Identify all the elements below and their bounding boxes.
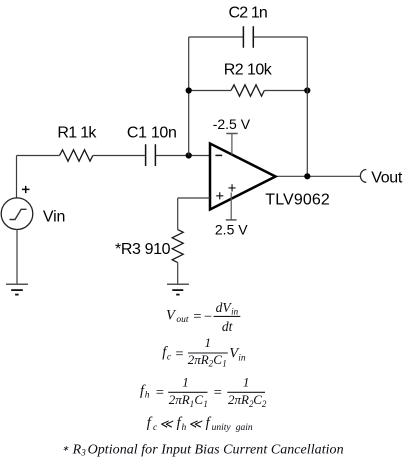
pin label minus (inverting input)	[215, 154, 222, 156]
formula fh = 1/(2piR1C1) = 1/(2piR2C2)	[140, 375, 267, 409]
capacitor C2	[243, 26, 253, 47]
svg-text:2.5 V: 2.5 V	[215, 221, 248, 237]
svg-text:1: 1	[182, 375, 189, 390]
positive supply rail 2.5 V	[226, 193, 237, 220]
wire R2 left	[189, 90, 231, 92]
svg-text:h: h	[182, 423, 187, 433]
wire Vin to ground	[16, 230, 18, 284]
wire R2 right	[264, 90, 307, 92]
ground (below Vin)	[6, 284, 28, 294]
svg-text:Vout: Vout	[371, 170, 403, 187]
svg-text:C: C	[194, 392, 203, 407]
resistor R3	[172, 230, 183, 263]
formula Vout = -dVin/dt	[166, 300, 240, 334]
wire input horizontal from Vin corner to R1	[17, 155, 60, 157]
svg-text:h: h	[145, 390, 150, 400]
svg-text:C2 1n: C2 1n	[229, 5, 268, 22]
polarity plus mark of Vin	[22, 186, 30, 193]
svg-text:R1 1k: R1 1k	[57, 125, 97, 142]
pin label plus (positive supply)	[229, 184, 236, 191]
wire R3 to ground	[177, 263, 179, 284]
wire C2 to top right corner	[254, 36, 307, 38]
svg-text:R: R	[72, 442, 82, 457]
svg-text:2πR: 2πR	[169, 392, 190, 407]
svg-text:2: 2	[262, 399, 267, 409]
svg-text:in: in	[238, 354, 246, 364]
negative supply rail -2.5 V	[226, 134, 237, 155]
svg-text:TLV9062: TLV9062	[265, 191, 330, 208]
svg-text:-2.5 V: -2.5 V	[213, 116, 251, 132]
svg-text:Vin: Vin	[43, 208, 66, 225]
svg-text:1: 1	[243, 375, 250, 390]
junction dot output	[304, 173, 310, 179]
wire down to R3	[177, 198, 179, 230]
svg-text:R2 10k: R2 10k	[224, 61, 273, 78]
svg-text:C: C	[253, 392, 262, 407]
svg-text:out: out	[176, 315, 189, 325]
op-amp U1 TLV9062	[210, 144, 276, 210]
svg-text:2πR: 2πR	[228, 392, 249, 407]
svg-text:C: C	[213, 352, 222, 367]
wire C1 to op-amp inverting input	[156, 155, 210, 157]
resistor R2	[231, 85, 264, 96]
svg-text:≪: ≪	[159, 417, 174, 431]
output terminal Vout	[360, 170, 366, 183]
wire Vin vertical top	[16, 156, 18, 199]
svg-text:dt: dt	[222, 319, 234, 334]
formula fc = 1/(2piR2C1) Vin	[162, 335, 246, 369]
formula fc << fh << funity gain	[147, 415, 253, 433]
wire R1 to C1	[93, 155, 145, 157]
svg-text:dV: dV	[216, 300, 233, 315]
capacitor C1	[146, 144, 156, 166]
svg-text:*R3 910: *R3 910	[115, 241, 171, 258]
junction dot right R2	[304, 87, 310, 93]
wire output	[276, 175, 361, 177]
svg-text:1: 1	[203, 399, 208, 409]
svg-text:1: 1	[205, 335, 212, 350]
wire non-inverting input horizontal	[178, 197, 210, 199]
wire top left to C2	[189, 36, 243, 38]
source V1 Vin	[1, 198, 33, 230]
svg-text:2πR: 2πR	[188, 352, 209, 367]
wire right feedback vertical	[306, 37, 308, 176]
svg-text:gain: gain	[236, 423, 253, 433]
node A junction dot (inverting input)	[186, 152, 192, 158]
svg-text:1: 1	[222, 359, 227, 369]
resistor R1	[60, 150, 93, 161]
svg-text:≪: ≪	[188, 417, 203, 431]
svg-text:C1 10n: C1 10n	[127, 125, 177, 142]
svg-text:3: 3	[80, 448, 86, 458]
svg-text:−: −	[203, 309, 213, 325]
footnote * R3 Optional for Input Bias Current Cancellation	[62, 442, 344, 457]
ground (below R3)	[167, 284, 189, 294]
svg-text:=: =	[192, 309, 202, 325]
pin label plus (non-inverting input)	[216, 192, 223, 199]
svg-text:=: =	[155, 385, 165, 401]
junction dot left R2	[186, 87, 192, 93]
svg-text:Optional for Input Bias Curren: Optional for Input Bias Current Cancella…	[88, 442, 344, 457]
svg-text:∗: ∗	[62, 444, 69, 453]
svg-text:=: =	[213, 385, 223, 401]
svg-text:=: =	[175, 346, 185, 362]
svg-text:unity: unity	[212, 423, 232, 433]
wire left feedback vertical	[188, 37, 190, 156]
svg-text:in: in	[231, 307, 239, 317]
